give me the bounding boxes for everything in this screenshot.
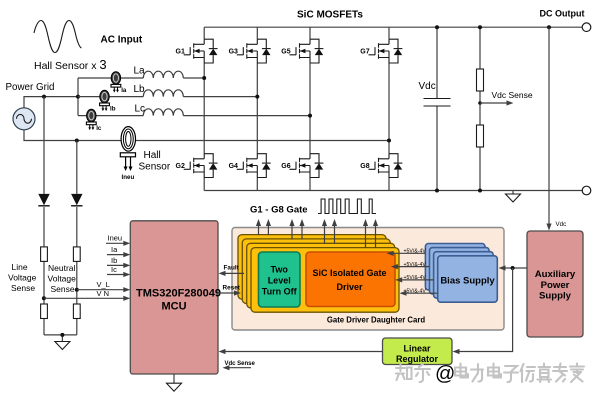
svg-text:Turn Off: Turn Off — [262, 287, 298, 297]
svg-text:Hall Sensor x 3: Hall Sensor x 3 — [34, 57, 107, 72]
svg-text:Ib: Ib — [110, 106, 116, 113]
svg-text:Vdc: Vdc — [419, 81, 436, 92]
svg-text:Ineu: Ineu — [122, 174, 135, 181]
svg-text:Two: Two — [271, 265, 289, 275]
svg-text:Ic: Ic — [111, 265, 117, 274]
svg-text:Ic: Ic — [96, 125, 102, 132]
svg-text:@: @ — [435, 363, 455, 385]
svg-text:TMS320F280049: TMS320F280049 — [136, 288, 221, 300]
svg-text:Fault: Fault — [224, 265, 240, 272]
svg-text:Hall: Hall — [144, 150, 161, 161]
svg-text:Neutral: Neutral — [48, 263, 76, 273]
svg-text:G2: G2 — [176, 163, 185, 170]
svg-text:SiC MOSFETs: SiC MOSFETs — [297, 10, 363, 21]
svg-text:Supply: Supply — [539, 291, 572, 302]
svg-text:Power Grid: Power Grid — [6, 82, 55, 93]
svg-text:G3: G3 — [229, 49, 238, 56]
svg-text:G1 - G8 Gate: G1 - G8 Gate — [250, 205, 308, 216]
svg-text:G8: G8 — [360, 163, 369, 170]
svg-text:Level: Level — [268, 276, 291, 286]
svg-text:Power: Power — [541, 280, 570, 291]
svg-text:Lb: Lb — [134, 84, 146, 95]
svg-text:Linear: Linear — [403, 344, 431, 354]
svg-text:Auxiliary: Auxiliary — [535, 269, 576, 280]
svg-text:G7: G7 — [360, 49, 369, 56]
svg-text:Vdc Sense: Vdc Sense — [492, 90, 533, 100]
svg-text:Ia: Ia — [111, 245, 118, 254]
svg-text:G4: G4 — [229, 163, 238, 170]
svg-text:Driver: Driver — [336, 282, 363, 292]
svg-text:La: La — [134, 66, 146, 77]
svg-text:G1: G1 — [176, 49, 185, 56]
svg-text:Regulator: Regulator — [396, 354, 439, 364]
svg-text:Ia: Ia — [121, 87, 127, 94]
svg-text:V_L: V_L — [97, 280, 110, 289]
svg-text:Vdc: Vdc — [556, 221, 567, 228]
svg-text:DC Output: DC Output — [540, 9, 585, 19]
svg-text:Voltage: Voltage — [48, 274, 77, 284]
svg-text:Gate Driver Daughter Card: Gate Driver Daughter Card — [327, 316, 426, 325]
svg-text:V N: V N — [97, 289, 110, 298]
svg-text:Lc: Lc — [135, 104, 146, 115]
svg-text:G5: G5 — [281, 49, 290, 56]
svg-text:MCU: MCU — [162, 301, 187, 313]
svg-text:Ineu: Ineu — [108, 234, 123, 243]
svg-text:Sensor: Sensor — [139, 162, 171, 173]
svg-text:Reset: Reset — [223, 285, 241, 292]
svg-text:Sense: Sense — [11, 283, 35, 293]
svg-text:SiC Isolated Gate: SiC Isolated Gate — [312, 268, 386, 278]
svg-text:Line: Line — [12, 262, 28, 272]
svg-text:Bias Supply: Bias Supply — [440, 276, 495, 287]
svg-text:AC Input: AC Input — [101, 35, 143, 46]
svg-text:G6: G6 — [281, 163, 290, 170]
svg-text:Ib: Ib — [111, 256, 117, 265]
svg-text:Sense: Sense — [51, 284, 75, 294]
svg-text:Voltage: Voltage — [8, 273, 37, 283]
